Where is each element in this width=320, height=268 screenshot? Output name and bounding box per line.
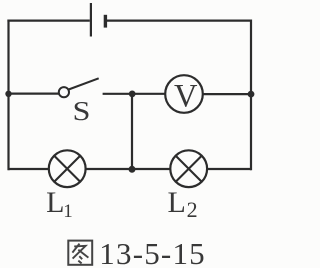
wire top left xyxy=(7,20,89,22)
lamp L1 circle xyxy=(49,150,86,187)
lamp L2 cross xyxy=(176,156,202,182)
lamp L1 cross xyxy=(54,156,80,182)
wire middle (switch to voltmeter) xyxy=(103,93,166,95)
wire middle right (voltmeter to right rail) xyxy=(203,93,251,95)
wire left side xyxy=(7,20,9,171)
wire bottom (left rail to lamp L1) xyxy=(9,168,50,170)
svg-text:S: S xyxy=(73,96,91,126)
svg-text:L1: L1 xyxy=(46,186,73,222)
wire bottom (L1 to center node) xyxy=(86,168,132,170)
voltmeter U1 circle xyxy=(165,75,203,113)
wire right side xyxy=(250,20,252,171)
label L1 xyxy=(46,186,73,222)
battery BT long plate xyxy=(90,3,92,37)
label S (switch) xyxy=(73,96,91,126)
lamp L2 circle xyxy=(170,150,207,187)
battery BT short plate xyxy=(104,15,107,28)
node junction dot left rail / middle wire xyxy=(5,91,11,97)
node junction dot center top xyxy=(129,91,136,98)
wire middle left (left rail to switch) xyxy=(9,92,59,94)
wire center vertical branch xyxy=(131,94,133,169)
label L2 xyxy=(168,186,198,222)
caption text 13-5-15 xyxy=(99,236,206,268)
caption character 图 (drawn) xyxy=(68,241,92,265)
wire bottom (L2 to right rail) xyxy=(207,168,251,170)
label V (voltmeter dial) xyxy=(174,78,198,114)
node junction dot right rail / middle wire xyxy=(248,91,255,98)
switch S lever xyxy=(69,78,99,89)
svg-text:L2: L2 xyxy=(168,186,198,222)
svg-text:13-5-15: 13-5-15 xyxy=(99,236,206,268)
node junction dot center bottom xyxy=(129,166,136,173)
switch S pivot circle xyxy=(59,87,69,97)
wire top right xyxy=(105,20,252,22)
svg-text:V: V xyxy=(174,78,198,114)
wire bottom (center node to L2) xyxy=(132,168,170,170)
